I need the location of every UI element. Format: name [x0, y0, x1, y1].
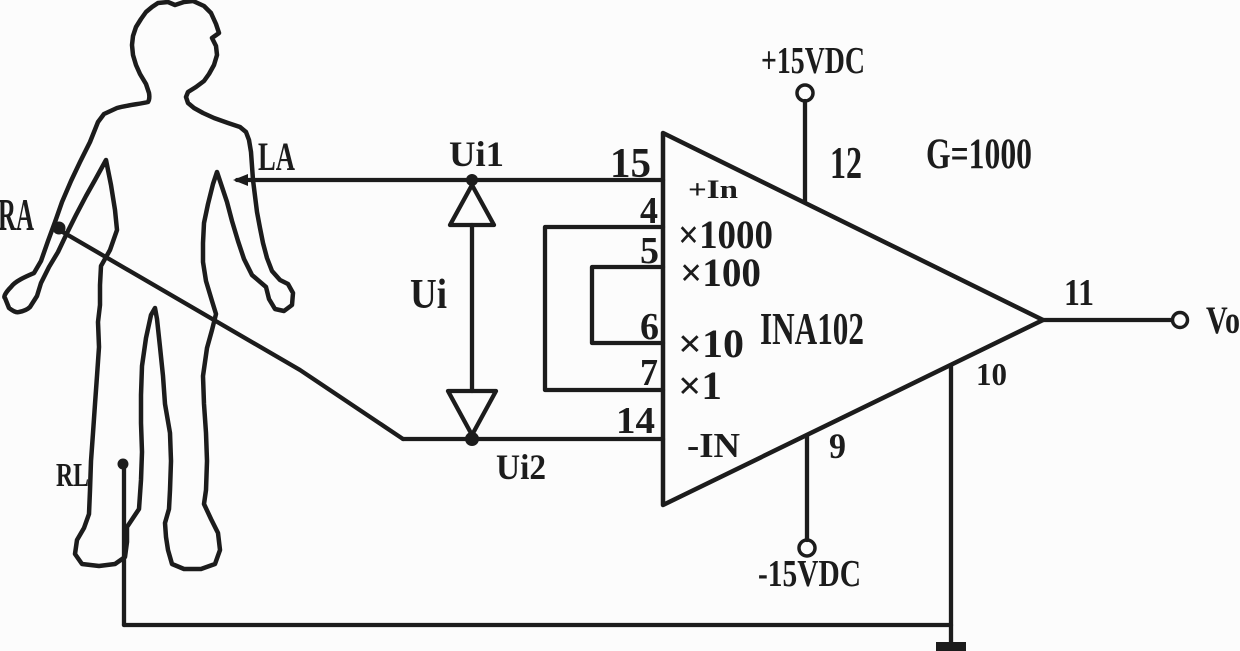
- svg-text:INA102: INA102: [760, 303, 864, 354]
- svg-text:10: 10: [976, 356, 1007, 392]
- svg-text:7: 7: [640, 352, 658, 394]
- terminal Vo circle: [1173, 313, 1188, 328]
- wire pin 12 +supply: [803, 101, 807, 202]
- arrow Ui up triangle: [450, 185, 494, 225]
- svg-text:-IN: -IN: [687, 426, 740, 465]
- svg-text:Ui: Ui: [410, 272, 447, 318]
- wire RL lead vertical: [122, 465, 126, 625]
- svg-text:11: 11: [1064, 272, 1094, 314]
- ground bar: [936, 642, 966, 651]
- body outline (human figure): [4, 1, 293, 569]
- svg-text:12: 12: [830, 137, 862, 188]
- wire pin4 loop outer: [545, 227, 663, 390]
- svg-text:RA: RA: [0, 190, 34, 240]
- wire pin5 loop inner: [592, 267, 663, 343]
- op-amp U1 INA102 triangle: [663, 133, 1043, 505]
- node Ui2 junction dot: [465, 432, 479, 446]
- wire pin 9 -supply: [805, 436, 809, 540]
- svg-text:+In: +In: [688, 175, 739, 204]
- svg-text:RL: RL: [56, 457, 89, 494]
- svg-text:×100: ×100: [680, 250, 761, 295]
- arrow Ui shaft: [470, 225, 474, 391]
- wire RA lead diagonal: [61, 231, 403, 439]
- svg-text:×1: ×1: [678, 363, 722, 408]
- node Ui1 junction dot: [466, 174, 478, 186]
- wire bottom ground run: [124, 623, 951, 627]
- electrode RL dot: [118, 459, 129, 470]
- svg-text:LA: LA: [258, 134, 295, 179]
- svg-text:+15VDC: +15VDC: [761, 40, 865, 82]
- svg-text:Ui2: Ui2: [496, 447, 546, 487]
- svg-text:Vo: Vo: [1206, 299, 1240, 342]
- svg-text:9: 9: [829, 426, 846, 466]
- svg-text:G=1000: G=1000: [926, 131, 1032, 178]
- wire Ui2 / pin 14: [403, 437, 663, 441]
- electrode RA dot: [53, 222, 66, 235]
- wire pin 11 output: [1043, 318, 1172, 322]
- svg-text:6: 6: [640, 306, 659, 348]
- svg-text:14: 14: [616, 400, 655, 442]
- svg-text:5: 5: [640, 230, 659, 272]
- svg-text:-15VDC: -15VDC: [758, 553, 861, 595]
- arrow Ui down triangle: [448, 391, 496, 435]
- wire LA lead to pin 15: [237, 178, 663, 182]
- terminal -15VDC circle: [799, 540, 815, 556]
- svg-text:×10: ×10: [678, 321, 744, 366]
- svg-text:Ui1: Ui1: [449, 134, 504, 174]
- arrowhead LA: [233, 174, 248, 186]
- svg-text:4: 4: [640, 190, 658, 232]
- terminal +15VDC circle: [797, 85, 813, 101]
- svg-text:15: 15: [610, 141, 651, 187]
- wire pin 10 down to ground: [949, 365, 953, 643]
